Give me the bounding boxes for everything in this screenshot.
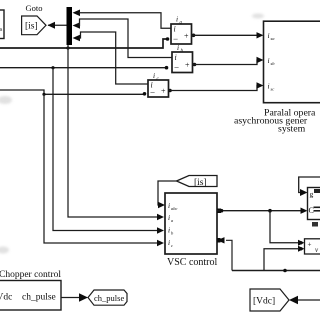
svg-text:Goto: Goto <box>26 3 43 13</box>
mux M1 <box>67 7 73 45</box>
voltage measurement block (cut off at right) <box>305 239 320 254</box>
svg-text:i: i <box>168 213 170 222</box>
svg-text:i: i <box>168 201 170 210</box>
vertical wire to VSC in2 <box>68 45 164 220</box>
faint scan smudges <box>0 14 264 254</box>
svg-text:+: + <box>184 32 189 41</box>
svg-text:+: + <box>185 61 190 70</box>
From tag [is] <box>177 176 218 188</box>
chopper label fragment <box>312 222 318 227</box>
svg-text:g: g <box>310 190 314 199</box>
generator block label <box>234 108 316 135</box>
junction mux bottom <box>66 46 69 49</box>
wire mux output to [is] tag <box>48 22 68 29</box>
svg-text:abc: abc <box>171 206 178 211</box>
chopper block (cut off at right) <box>308 188 320 220</box>
svg-text:system: system <box>278 124 306 135</box>
svg-text:i: i <box>175 53 177 62</box>
VSC control block <box>165 193 217 254</box>
junction bus C <box>42 93 45 96</box>
goto tag ch_pulse <box>88 290 127 305</box>
bus line B (to ib minus) <box>0 66 168 70</box>
svg-text:i: i <box>177 43 179 52</box>
wire From tag to VSC in1 <box>158 181 177 208</box>
goto tag Vdc <box>250 289 289 311</box>
source block (cut off at left edge) <box>0 10 4 39</box>
svg-text:ch_pulse: ch_pulse <box>22 293 56 303</box>
svg-text:C: C <box>309 206 314 215</box>
wire ic.plus to generator port 3 <box>168 82 263 92</box>
svg-text:Chopper control: Chopper control <box>0 270 61 280</box>
svg-text:+: + <box>161 87 166 96</box>
goto tag [is] <box>22 16 46 35</box>
wire junction to voltage meas plus <box>270 211 305 246</box>
svg-text:i: i <box>168 226 170 235</box>
svg-text:sc: sc <box>271 87 275 92</box>
svg-text:−: − <box>150 88 155 98</box>
wire ia.plus to generator port 1 <box>192 32 264 38</box>
wire into Vdc tag <box>289 296 320 304</box>
svg-text:c: c <box>171 243 173 248</box>
current measurement block ib <box>172 43 193 73</box>
chopper feedback wire into g <box>299 177 320 196</box>
vertical wire to VSC in4 <box>44 94 164 246</box>
svg-text:i: i <box>176 15 178 24</box>
wire ib.i to mux input 2 <box>79 19 172 58</box>
svg-text:VSC control: VSC control <box>167 257 218 268</box>
svg-text:ch_pulse: ch_pulse <box>94 293 124 303</box>
wire ic.i to mux input 3 <box>79 32 148 84</box>
vertical wire to VSC in3 <box>53 68 164 234</box>
svg-text:[is]: [is] <box>25 22 38 32</box>
svg-text:i: i <box>174 25 176 34</box>
svg-text:i: i <box>268 82 270 91</box>
svg-text:i: i <box>168 238 170 247</box>
bus line C (to ic minus) <box>0 90 146 96</box>
svg-text:i: i <box>268 31 270 40</box>
svg-text:i: i <box>268 56 270 65</box>
bus line A (to ia minus) <box>0 37 169 48</box>
wire ia.i to mux input 1 <box>79 13 171 28</box>
svg-text:[Vdc]: [Vdc] <box>253 297 275 307</box>
bottom dc wire to VSC right input <box>217 237 320 272</box>
svg-text:i: i <box>153 71 155 80</box>
VSC out1 wire to chopper C <box>217 208 308 214</box>
generator system block (cut off at right) <box>264 21 320 103</box>
wire chopper control to ch_pulse tag <box>61 293 88 301</box>
Chopper control block (cut off at left) <box>0 281 61 311</box>
wire voltage meas minus <box>264 246 305 271</box>
wire ib.plus to generator port 2 <box>193 57 264 67</box>
svg-text:−: − <box>174 63 179 73</box>
current measurement block ic <box>148 71 169 98</box>
mux input arrowheads <box>73 10 81 42</box>
junction bus B <box>51 66 54 69</box>
svg-text:+: + <box>308 241 312 249</box>
svg-text:[is]: [is] <box>194 178 207 188</box>
svg-text:Vdc: Vdc <box>0 293 12 303</box>
current measurement block ia <box>171 15 192 45</box>
